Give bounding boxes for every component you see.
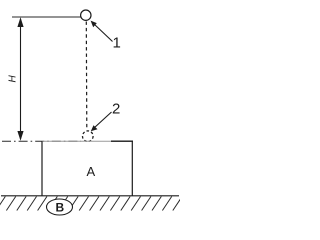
ball 2 (dashed, at impact point) <box>83 131 94 142</box>
svg-text:B: B <box>56 201 65 215</box>
svg-text:H: H <box>8 75 19 83</box>
svg-text:2: 2 <box>112 100 120 117</box>
node B ellipse (buried object) <box>47 199 73 215</box>
svg-text:1: 1 <box>113 35 121 52</box>
block A left edge <box>41 141 43 196</box>
block A top edge right (dark) <box>111 140 133 142</box>
wire top reference line <box>12 16 81 18</box>
ball 1 <box>81 10 91 20</box>
dimension line H <box>17 17 23 140</box>
ground hatching <box>0 197 182 211</box>
block A top edge (faint) <box>42 140 132 142</box>
leader arrow 1 <box>91 21 113 42</box>
wire dash-dot center line <box>2 140 81 142</box>
block A right edge <box>131 141 133 196</box>
ground line <box>1 195 179 197</box>
svg-text:A: A <box>87 164 96 179</box>
wire dashed fall path <box>85 22 88 131</box>
leader arrow 2 <box>91 112 112 131</box>
